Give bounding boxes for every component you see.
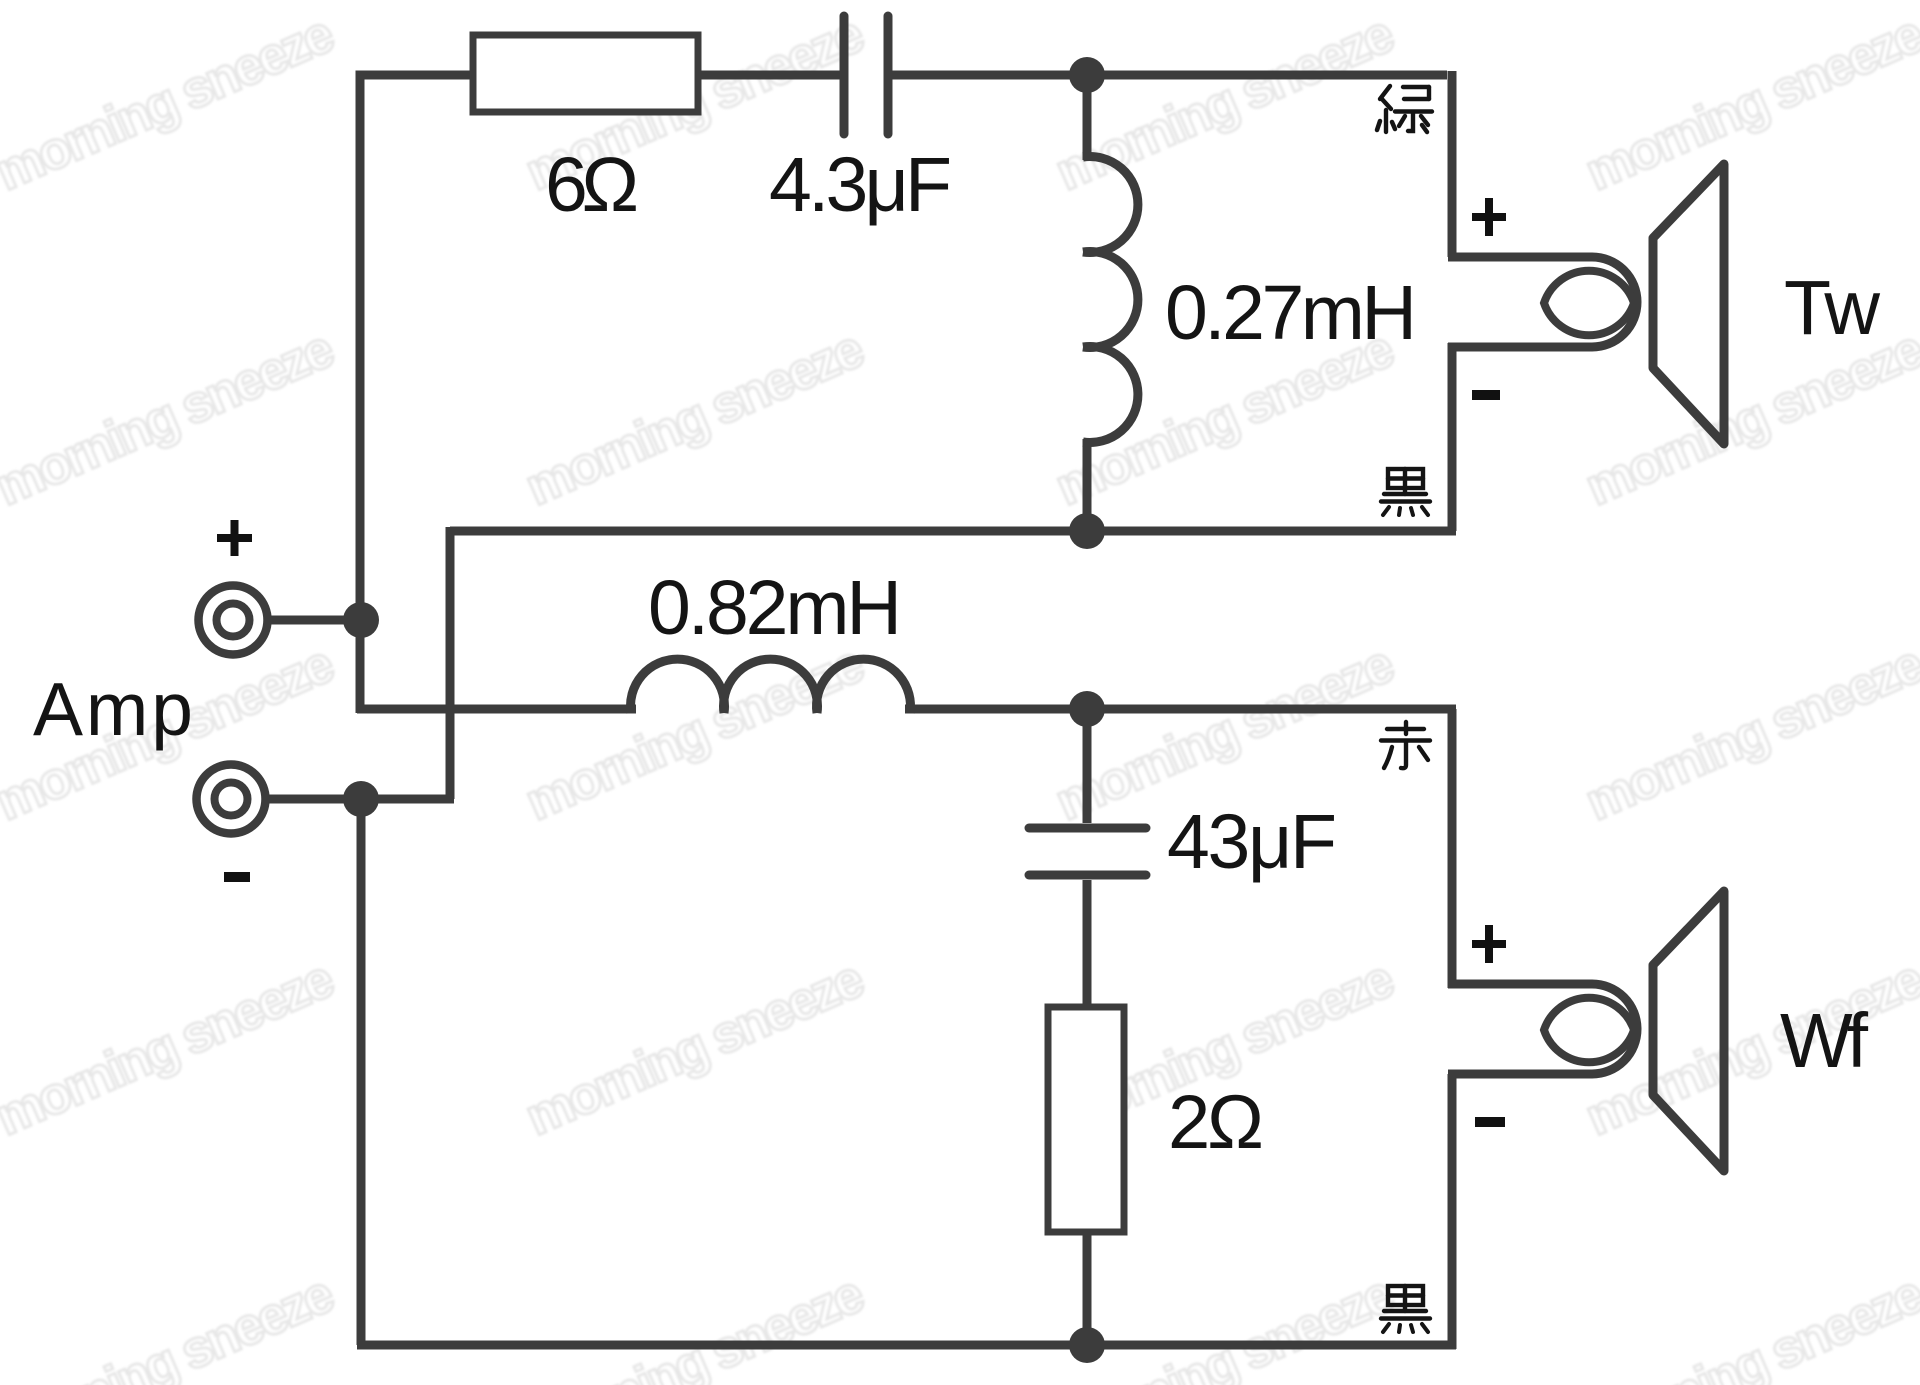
inductor L2 0.82mH hump 2 bbox=[724, 659, 818, 713]
woofer minus polarity mark bbox=[1475, 1117, 1505, 1127]
woofer voice-coil hook arc bbox=[1592, 984, 1637, 1074]
node D junction dot (bottom rail / R2) bbox=[1069, 1327, 1105, 1363]
wire: tweeter return rail (black wire) through node B bbox=[450, 527, 1456, 536]
tweeter plus polarity mark bbox=[1472, 198, 1506, 236]
wire: tweeter minus lead bbox=[1448, 343, 1592, 352]
wire: tweeter plus lead bbox=[1448, 253, 1592, 262]
wire: woofer right riser up to minus lead (black wire) bbox=[1448, 1074, 1457, 1349]
woofer plus polarity mark bbox=[1472, 925, 1506, 963]
tweeter cone trapezoid bbox=[1653, 164, 1724, 444]
svg-text:morning sneeze: morning sneeze bbox=[517, 949, 873, 1147]
svg-text:morning sneeze: morning sneeze bbox=[0, 1264, 343, 1385]
svg-text:morning sneeze: morning sneeze bbox=[1047, 1264, 1403, 1385]
wire: woofer riser up to red corner bbox=[1448, 709, 1457, 988]
wire: node C down to C2 top plate bbox=[1083, 709, 1092, 823]
svg-text:6Ω: 6Ω bbox=[545, 142, 639, 228]
inductor L1 0.27mH loop 3 bbox=[1083, 347, 1138, 443]
capacitor C2 43uF bottom plate bbox=[1029, 871, 1146, 880]
wire: bottom return rail through node D bbox=[357, 1341, 1456, 1350]
svg-text:Wf: Wf bbox=[1780, 998, 1869, 1084]
kanji label midori (green) at tweeter plus wire bbox=[1377, 86, 1432, 132]
wire: lower branch left segment from plus junction to L2 bbox=[357, 705, 636, 714]
wire: R1 right terminal to C1 left plate bbox=[698, 71, 840, 80]
svg-text:morning sneeze: morning sneeze bbox=[1577, 1264, 1920, 1385]
svg-text:2Ω: 2Ω bbox=[1168, 1080, 1264, 1165]
amp minus binding-post terminal outer ring bbox=[197, 765, 266, 834]
woofer cone trapezoid bbox=[1653, 891, 1724, 1171]
resistor R1 6 ohm body bbox=[473, 35, 698, 112]
kanji label kuro (black) at tweeter minus wire bbox=[1381, 469, 1430, 515]
node A junction dot (top rail / L1) bbox=[1069, 57, 1105, 93]
capacitor C1 4.3uF right plate bbox=[884, 16, 893, 134]
capacitor C2 43uF top plate bbox=[1029, 824, 1146, 833]
inductor L2 0.82mH hump 3 bbox=[817, 659, 911, 713]
wire: amp plus terminal lead bbox=[266, 616, 361, 625]
svg-text:morning sneeze: morning sneeze bbox=[1577, 4, 1920, 202]
wire: tweeter riser from minus lead down to return rail bbox=[1448, 343, 1457, 531]
svg-text:0.27mH: 0.27mH bbox=[1165, 270, 1417, 356]
amp plus junction dot bbox=[343, 602, 379, 638]
amp minus polarity mark bbox=[224, 872, 250, 882]
amp plus binding-post terminal inner ring bbox=[217, 604, 250, 637]
wire: node A down to L1 top bbox=[1083, 75, 1092, 160]
resistor R2 2 ohm body bbox=[1048, 1007, 1124, 1232]
wire: C1 to tweeter corner through node A bbox=[892, 71, 1447, 80]
svg-text:morning sneeze: morning sneeze bbox=[517, 319, 873, 517]
wire: amp minus terminal lead bbox=[266, 795, 361, 804]
svg-text:43μF: 43μF bbox=[1167, 799, 1337, 885]
wire: woofer minus lead bbox=[1448, 1070, 1592, 1079]
wire: L1 bottom to node B bbox=[1083, 439, 1092, 531]
svg-text:Amp: Amp bbox=[33, 667, 193, 751]
inductor L1 0.27mH loop 2 bbox=[1083, 252, 1138, 348]
woofer voice-coil lens bbox=[1544, 998, 1634, 1063]
capacitor C1 4.3uF left plate bbox=[840, 16, 849, 134]
wire: return riser down toward minus junction bbox=[446, 527, 455, 799]
svg-text:morning sneeze: morning sneeze bbox=[1047, 4, 1403, 202]
wire: lower branch right segment from L2 to woofer corner through node C bbox=[905, 705, 1456, 714]
svg-text:morning sneeze: morning sneeze bbox=[1577, 634, 1920, 832]
kanji label kuro (black) at woofer minus wire bbox=[1381, 1286, 1430, 1332]
kanji label aka (red) at woofer plus wire bbox=[1381, 722, 1430, 768]
svg-text:morning sneeze: morning sneeze bbox=[0, 949, 343, 1147]
svg-text:morning sneeze: morning sneeze bbox=[0, 4, 343, 202]
svg-text:morning sneeze: morning sneeze bbox=[0, 319, 343, 517]
wire: tweeter right riser down to plus lead (green wire) bbox=[1448, 71, 1457, 257]
wire: return riser foot to minus junction bbox=[361, 795, 454, 804]
tweeter voice-coil hook arc bbox=[1592, 257, 1637, 347]
node C junction dot (lower branch / C2) bbox=[1069, 691, 1105, 727]
inductor L2 0.82mH hump 1 bbox=[630, 659, 724, 713]
node B junction dot (tweeter return / L1) bbox=[1069, 513, 1105, 549]
amp plus binding-post terminal outer ring bbox=[199, 586, 268, 655]
amp minus binding-post terminal inner ring bbox=[215, 783, 248, 816]
svg-text:Tw: Tw bbox=[1784, 265, 1880, 351]
wire: minus junction down the left column bbox=[357, 795, 366, 1345]
inductor L1 0.27mH loop 1 bbox=[1083, 157, 1138, 253]
wire: C2 bottom plate to R2 top bbox=[1083, 880, 1092, 1007]
amp minus junction dot bbox=[343, 781, 379, 817]
svg-text:0.82mH: 0.82mH bbox=[648, 565, 902, 651]
svg-text:4.3μF: 4.3μF bbox=[769, 142, 952, 228]
amp plus polarity mark bbox=[217, 520, 252, 556]
wire: amp plus riser, left column up to top rail bbox=[360, 75, 473, 713]
tweeter voice-coil lens bbox=[1544, 271, 1634, 336]
wire: woofer plus lead bbox=[1448, 980, 1592, 989]
svg-text:morning sneeze: morning sneeze bbox=[517, 1264, 873, 1385]
tweeter minus polarity mark bbox=[1472, 390, 1500, 400]
wire: R2 bottom to node D bbox=[1083, 1232, 1092, 1345]
